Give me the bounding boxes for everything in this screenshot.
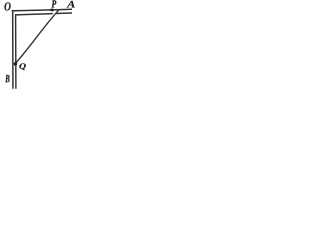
rail OA outer horizontal line (12, 9, 72, 11)
point Q dot (14, 62, 18, 66)
rod PQ diagonal (15, 10, 59, 64)
rail OB inner vertical line (15, 14, 17, 89)
label B (5, 75, 9, 82)
rail OA inner horizontal line right part after rod crossing (56, 12, 72, 15)
label P (52, 0, 57, 7)
label A (67, 1, 75, 8)
point P dot (50, 8, 54, 11)
label O (4, 2, 10, 10)
label Q (19, 63, 25, 70)
geometry diagram: rod PQ sliding on perpendicular rails OA (horizontal) and OB (vertical) (0, 0, 129, 114)
rail OA inner horizontal line (15, 14, 53, 15)
background (0, 0, 129, 114)
rail OB outer vertical line (12, 10, 14, 89)
